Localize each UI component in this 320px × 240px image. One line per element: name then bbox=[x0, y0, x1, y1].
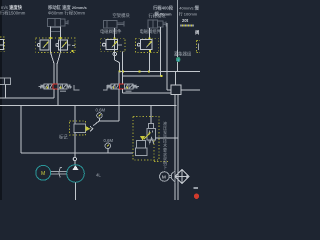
relief valve stack bbox=[144, 124, 156, 144]
left edge partial valve bbox=[0, 78, 11, 85]
wire cylR left port to boxE bbox=[148, 28, 150, 38]
wire valve V2 bottom port to H4 and H6 bbox=[118, 89, 120, 121]
wire cyl1 rod-side port through boxB bbox=[50, 27, 52, 53]
valve box A partial left edge bbox=[0, 37, 5, 52]
fan motor M2 bbox=[160, 172, 170, 182]
svg-text:0.6M: 0.6M bbox=[96, 108, 106, 113]
junction dot boxB top left bbox=[50, 37, 52, 39]
pump outlet bottom bbox=[75, 183, 77, 201]
svg-text:行程模块: 行程模块 bbox=[149, 13, 167, 20]
H5 line left bbox=[0, 97, 54, 99]
junction dot boxE bottom bbox=[149, 50, 151, 52]
valve box E bbox=[136, 38, 159, 52]
H2 bus bbox=[123, 75, 162, 77]
junction dot boxB top right bbox=[60, 37, 62, 39]
svg-text:蓄能器组: 蓄能器组 bbox=[174, 51, 192, 58]
gauge G1 bbox=[97, 113, 103, 119]
H3 line right bbox=[123, 92, 172, 94]
svg-text:M: M bbox=[41, 171, 45, 177]
svg-text:行 100mm: 行 100mm bbox=[179, 10, 198, 16]
wire return pipe left below square bbox=[174, 95, 176, 200]
yellow pilot dash-dot L bbox=[154, 141, 169, 162]
svg-text:电磁阀组件: 电磁阀组件 bbox=[140, 28, 162, 35]
valve box C bbox=[101, 38, 125, 52]
cone coupling bbox=[171, 171, 175, 182]
wire return pipe right below square bbox=[177, 95, 179, 200]
svg-text:电磁阀组件: 电磁阀组件 bbox=[100, 28, 122, 35]
shaft bbox=[51, 170, 67, 172]
partial yellow box right edge bbox=[197, 41, 201, 53]
wire valve V1 bottom port to H4 bbox=[57, 89, 59, 105]
cylinder CR bbox=[148, 20, 166, 28]
yellow corner dot boxB bbox=[72, 50, 74, 52]
funnel wires box B to valve V1 bbox=[51, 52, 61, 84]
hatched bar under 20t bbox=[180, 25, 194, 27]
check valve block bbox=[70, 121, 100, 135]
wire valve V2 top port B bbox=[122, 72, 124, 85]
wire H1 to square feed bbox=[175, 72, 177, 86]
svg-text:0.6M: 0.6M bbox=[104, 138, 114, 143]
boxC bottom port circle bbox=[113, 52, 117, 56]
motor M1 bbox=[36, 165, 51, 180]
wire valve V2 bottom port to H3 bbox=[122, 89, 124, 93]
tiny port labels under V1 bbox=[60, 91, 66, 92]
wire cyl1 cap-side port through boxB bbox=[59, 27, 61, 53]
boxB valve1 bbox=[37, 40, 49, 50]
cylinder C2 bbox=[104, 21, 125, 28]
vent circle bbox=[73, 157, 76, 160]
wire valve V1 bottom port to H5 bbox=[53, 89, 55, 98]
svg-text:空架模块: 空架模块 bbox=[113, 12, 131, 19]
wire boxE down riser to H1 bbox=[148, 53, 150, 72]
svg-text:行程1500mm: 行程1500mm bbox=[0, 10, 26, 17]
wire drain stub into square bbox=[167, 89, 171, 91]
riser H4 down into pump box bbox=[150, 105, 152, 123]
H4 main bus bbox=[0, 104, 176, 106]
junction dot H1 at x119.5 bbox=[119, 71, 121, 73]
wire cylR right port long drop to H2 bbox=[160, 27, 162, 76]
left return drop bbox=[20, 105, 22, 153]
junction dot H2 end at x161.5 bbox=[161, 75, 163, 77]
valve V2 4/3 directional bbox=[103, 84, 139, 90]
yellow dot boxE top bbox=[149, 37, 151, 39]
boxB valve2 bbox=[56, 40, 75, 50]
H6 gauge line bbox=[100, 120, 120, 122]
coupling bbox=[59, 168, 60, 178]
bottom right label bbox=[194, 187, 199, 189]
pilot valve left bbox=[136, 136, 147, 156]
relief tank line right bbox=[156, 137, 179, 139]
svg-text:4L: 4L bbox=[96, 173, 101, 178]
junction dot H1 at x139.5 bbox=[139, 71, 141, 73]
relief square component bbox=[171, 85, 181, 95]
divider line top-right bbox=[176, 0, 178, 50]
tiny port labels under V2 bbox=[126, 91, 132, 92]
filter diamond bbox=[175, 170, 189, 184]
svg-text:20t: 20t bbox=[182, 18, 189, 23]
red stamp dot bbox=[194, 194, 199, 199]
cylinder C1 bbox=[48, 18, 68, 31]
accumulator bbox=[177, 50, 179, 72]
wire boxC through-line down to H1 bbox=[115, 60, 120, 63]
H1 bus bbox=[120, 71, 201, 73]
svg-text:下: 下 bbox=[163, 165, 167, 170]
tank line H7 bbox=[21, 152, 133, 154]
wire valve V2 top port A bbox=[118, 72, 120, 85]
gauge G2 bbox=[105, 143, 111, 149]
pump P1 bbox=[67, 165, 85, 183]
junction dot boxC top bbox=[114, 37, 116, 39]
svg-text:Φ80mm 行程30mm: Φ80mm 行程30mm bbox=[48, 10, 86, 17]
svg-text:阀: 阀 bbox=[195, 29, 200, 36]
svg-text:标记: 标记 bbox=[59, 134, 68, 141]
valve box B bbox=[36, 38, 75, 52]
wire rod-end drop bbox=[166, 23, 168, 90]
pump feed vertical from H4 bbox=[74, 105, 76, 124]
vertical tech-requirement text bbox=[163, 120, 167, 170]
pump riser below block bbox=[74, 133, 76, 158]
wire drain line right of square bbox=[181, 89, 200, 91]
junction dot H1 at x122.8 bbox=[122, 71, 124, 73]
wire cyl2 port through boxC bbox=[114, 28, 116, 60]
pump station dashed box bbox=[133, 117, 159, 161]
valve V1 4/3 directional bbox=[39, 84, 80, 90]
junction dot H1 at x149 bbox=[148, 71, 150, 73]
svg-text:M: M bbox=[162, 175, 166, 181]
